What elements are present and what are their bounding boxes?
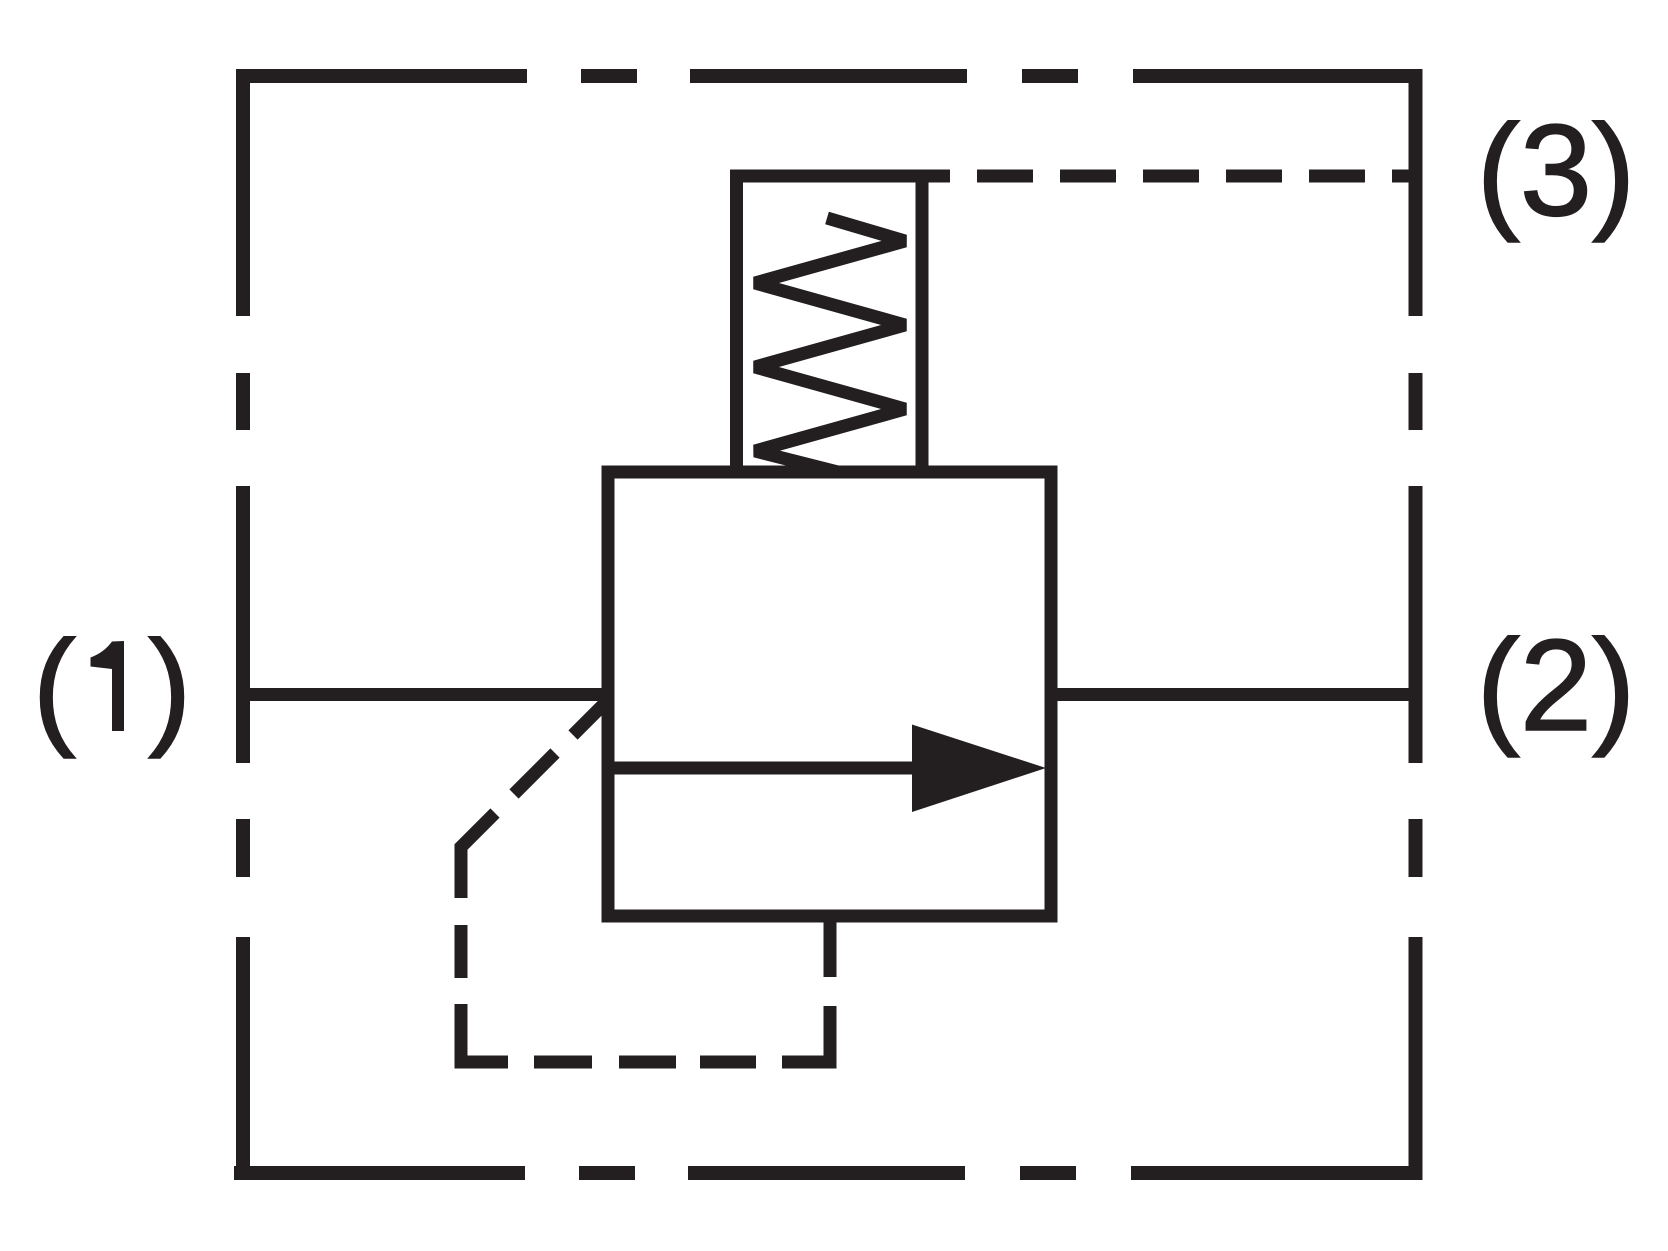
arrow line inside valve — [614, 762, 918, 775]
pilot line to port 3 (dashed) — [929, 170, 1416, 183]
pilot dashed diagonal dash 3 wrapping corner — [461, 813, 495, 898]
pilot bottom dash 4 wrapping right corner up — [782, 1006, 830, 1062]
wire port 1 main line — [243, 688, 614, 701]
pilot dashed vertical dash 3 wrapping bottom corner — [461, 1004, 508, 1062]
enclosure border bottom (dash-dot) — [234, 1166, 1423, 1180]
pilot dashed diagonal dash 1 — [573, 698, 610, 735]
svg-text:(3): (3) — [1477, 97, 1636, 243]
spring box right edge — [916, 176, 929, 472]
enclosure border left (dash-dot) — [236, 69, 250, 1180]
spring box left edge — [730, 176, 743, 472]
pilot bottom dash 1 — [534, 1056, 592, 1069]
wire port 2 main line — [1050, 688, 1415, 701]
enclosure border top (dash-dot) — [236, 69, 1423, 83]
pilot dashed vertical dash 2 — [455, 925, 468, 978]
pilot bottom dash 3 — [700, 1056, 756, 1069]
arrowhead (flow direction) — [912, 725, 1046, 813]
valve body square — [608, 472, 1051, 916]
svg-text:(2): (2) — [1477, 612, 1636, 758]
pilot dashed diagonal dash 2 — [514, 753, 555, 794]
svg-text:): ) — [148, 613, 191, 759]
svg-text:(: ( — [33, 613, 76, 759]
pilot stub dash to valve bottom — [824, 910, 837, 977]
spring (zigzag) — [755, 218, 905, 472]
label port (1) — [33, 613, 192, 759]
enclosure border right (dash-dot) — [1409, 69, 1423, 1180]
spring box top edge — [730, 170, 929, 183]
pilot bottom dash 2 — [619, 1056, 676, 1069]
